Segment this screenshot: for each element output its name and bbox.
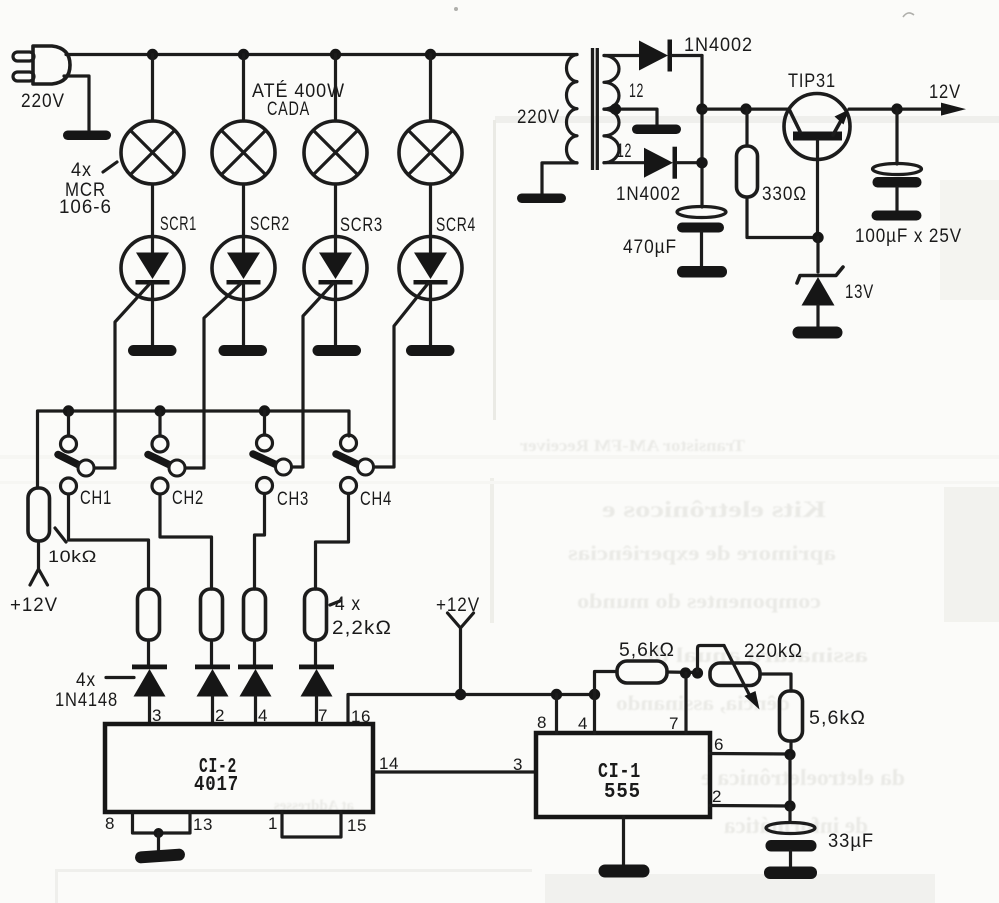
svg-text:8: 8 bbox=[105, 814, 115, 833]
node pin6 junction bbox=[784, 749, 795, 760]
svg-text:7: 7 bbox=[669, 714, 679, 733]
svg-text:2: 2 bbox=[215, 706, 225, 725]
wire CH2 to R2 bbox=[160, 494, 212, 589]
node rectifier junction bbox=[696, 103, 707, 114]
SCR4 bbox=[372, 184, 462, 467]
wire pin 2 bbox=[710, 804, 790, 808]
node pot left bbox=[680, 667, 691, 678]
wire to ground (4017) bbox=[157, 833, 160, 851]
leader 2,2k bbox=[330, 601, 340, 605]
wire pins 1-15 bbox=[282, 812, 341, 837]
resistor 5,6kΩ (vertical) bbox=[780, 691, 803, 754]
wire pin 6 bbox=[710, 752, 790, 756]
ground (4017) bbox=[135, 848, 186, 863]
switch CH2 bbox=[148, 411, 185, 494]
arrow 12V out bbox=[941, 103, 966, 116]
wire to pin 7 bbox=[684, 673, 687, 733]
ground (470µF) bbox=[677, 266, 727, 278]
diode D5 1N4148 bbox=[238, 665, 273, 725]
svg-text:220V: 220V bbox=[517, 107, 560, 128]
svg-text:555: 555 bbox=[604, 781, 641, 804]
capacitor 470µF bbox=[677, 207, 726, 267]
node lamp4 bbox=[425, 49, 436, 60]
svg-text:106-6: 106-6 bbox=[59, 197, 112, 218]
node 330 ohm tap bbox=[740, 103, 751, 114]
svg-text:16: 16 bbox=[351, 707, 371, 726]
lamp 1 bbox=[121, 55, 184, 185]
wire secondary bottom to diode bbox=[604, 161, 644, 164]
svg-text:Kits eletrônicos e: Kits eletrônicos e bbox=[602, 497, 826, 522]
svg-text:dência, assinando: dência, assinando bbox=[616, 691, 790, 715]
wire 555 pin1 to ground bbox=[622, 817, 625, 865]
svg-text:+12V: +12V bbox=[10, 595, 58, 616]
IC U2 CI-2 4017 bbox=[105, 724, 373, 812]
node lamp2 bbox=[238, 49, 249, 60]
svg-text:componentes do mundo: componentes do mundo bbox=[577, 589, 821, 613]
svg-text:13V: 13V bbox=[845, 282, 874, 303]
svg-text:220V: 220V bbox=[21, 91, 65, 112]
diode D1 1N4002 bbox=[639, 40, 702, 72]
label 4x 1N4148 bbox=[55, 670, 118, 711]
wire center tap bbox=[604, 109, 657, 125]
svg-text:3: 3 bbox=[152, 706, 162, 725]
label 4x MCR 106-6 bbox=[59, 160, 112, 218]
node pin4 tap bbox=[589, 689, 600, 700]
svg-text:1: 1 bbox=[268, 814, 278, 833]
svg-text:SCR4: SCR4 bbox=[436, 215, 476, 236]
lamp 2 bbox=[212, 55, 275, 185]
SCR3 bbox=[291, 184, 367, 467]
switch CH4 bbox=[336, 435, 374, 494]
transistor Q1 TIP31 bbox=[784, 94, 850, 238]
resistor R1 2,2kΩ bbox=[138, 589, 160, 665]
ground (555) bbox=[599, 865, 650, 878]
leader 1N4148 bbox=[106, 676, 134, 679]
wire pin 8 bbox=[555, 695, 558, 734]
svg-text:5,6kΩ: 5,6kΩ bbox=[619, 640, 675, 661]
svg-text:4x: 4x bbox=[76, 670, 96, 691]
SCR2 bbox=[184, 184, 275, 468]
svg-text:Transistor AM-FM Receiver: Transistor AM-FM Receiver bbox=[520, 436, 745, 455]
svg-text:14: 14 bbox=[379, 754, 399, 773]
label ATÉ 400W CADA bbox=[252, 81, 345, 120]
leader 10k bbox=[55, 528, 66, 542]
switch CH3 bbox=[253, 411, 292, 494]
capacitor 33µF bbox=[766, 806, 817, 867]
wire top AC rail bbox=[66, 53, 577, 56]
resistor R3 2,2kΩ bbox=[244, 589, 266, 665]
AC plug 220V bbox=[13, 46, 70, 84]
svg-text:4 x: 4 x bbox=[335, 594, 361, 615]
svg-text:470µF: 470µF bbox=[623, 237, 677, 258]
svg-text:TIP31: TIP31 bbox=[788, 71, 836, 92]
svg-text:1N4148: 1N4148 bbox=[55, 690, 118, 711]
label 4 x 2,2kΩ bbox=[332, 594, 392, 639]
node wiper tie bbox=[692, 667, 703, 678]
node pin2 junction bbox=[784, 800, 795, 811]
wire rectifier output vertical bbox=[700, 56, 703, 208]
svg-text:CH1: CH1 bbox=[80, 488, 112, 509]
svg-text:2,2kΩ: 2,2kΩ bbox=[332, 618, 392, 639]
svg-text:CH3: CH3 bbox=[277, 489, 309, 510]
wire rail to transistor bbox=[702, 107, 789, 110]
resistor 5,6kΩ (horizontal) bbox=[617, 661, 698, 683]
ground (100µF) bbox=[872, 211, 922, 221]
svg-text:15: 15 bbox=[347, 816, 367, 835]
svg-text:4: 4 bbox=[578, 714, 588, 733]
ground (primary) bbox=[517, 194, 566, 204]
ground (plug) bbox=[63, 131, 111, 141]
lamp 4 bbox=[399, 55, 462, 185]
node +12V antenna bbox=[455, 689, 466, 700]
wire secondary top to diode bbox=[604, 54, 639, 57]
supply fork +12V bbox=[448, 613, 474, 694]
node lamp1 bbox=[147, 49, 158, 60]
ground (SCR4) bbox=[406, 345, 455, 356]
svg-text:CH4: CH4 bbox=[360, 489, 392, 510]
svg-text:12V: 12V bbox=[929, 82, 961, 103]
svg-text:SCR3: SCR3 bbox=[340, 215, 383, 236]
node lower diode junction bbox=[696, 157, 707, 168]
svg-text:da eletroeletrônica e: da eletroeletrônica e bbox=[701, 765, 905, 790]
node pin8-13 ground tap bbox=[154, 828, 164, 838]
diode D4 1N4148 bbox=[195, 665, 230, 725]
resistor 330Ω bbox=[737, 109, 819, 237]
svg-text:33µF: 33µF bbox=[828, 831, 874, 852]
svg-text:5,6kΩ: 5,6kΩ bbox=[809, 708, 866, 729]
svg-text:aprimore de experiências: aprimore de experiências bbox=[568, 541, 836, 565]
ground (SCR2) bbox=[219, 345, 268, 356]
wire 12V output rail bbox=[849, 107, 951, 110]
wire pin 4 and 5,6k feed bbox=[595, 672, 618, 734]
svg-text:4x: 4x bbox=[71, 160, 92, 181]
svg-text:3: 3 bbox=[513, 755, 523, 774]
svg-text:12: 12 bbox=[617, 141, 632, 162]
diode D3 1N4148 bbox=[132, 665, 167, 725]
svg-text:SCR1: SCR1 bbox=[160, 214, 197, 235]
node bus CH3 bbox=[259, 405, 270, 416]
transformer core bbox=[593, 48, 598, 170]
node output cap tap bbox=[891, 103, 902, 114]
svg-text:7: 7 bbox=[318, 706, 328, 725]
node pin8 tap bbox=[551, 689, 562, 700]
svg-text:2: 2 bbox=[712, 787, 722, 806]
svg-text:100µF x 25V: 100µF x 25V bbox=[855, 226, 962, 247]
potentiometer 220kΩ bbox=[698, 646, 792, 710]
wire +12V rail to ICs bbox=[348, 695, 595, 725]
svg-text:4: 4 bbox=[258, 706, 268, 725]
resistor R2 2,2kΩ bbox=[201, 589, 223, 665]
node bus CH2 bbox=[154, 405, 165, 416]
ground (zener) bbox=[793, 327, 843, 339]
svg-text:220kΩ: 220kΩ bbox=[744, 641, 803, 662]
IC U1 CI-1 555 bbox=[536, 733, 710, 817]
resistor 10kΩ bbox=[28, 488, 50, 585]
wire primary bottom to ground bbox=[542, 163, 577, 194]
wire CH1 to R1 bbox=[69, 494, 149, 589]
transformer T1 secondary bbox=[604, 56, 619, 163]
zener diode 13V bbox=[797, 238, 843, 328]
wire pins 8-13 bbox=[133, 812, 191, 833]
node center tap bbox=[610, 103, 621, 114]
ground (center tap) bbox=[632, 125, 681, 135]
resistor R4 2,2kΩ bbox=[305, 589, 327, 665]
diode D2 1N4002 bbox=[644, 147, 702, 179]
svg-text:12: 12 bbox=[629, 81, 644, 102]
svg-text:CADA: CADA bbox=[267, 99, 310, 120]
svg-text:1N4002: 1N4002 bbox=[616, 184, 681, 205]
transformer T1 primary bbox=[566, 55, 577, 163]
wire CH4 to R4 bbox=[316, 494, 349, 590]
svg-text:CH2: CH2 bbox=[172, 488, 204, 509]
svg-text:330Ω: 330Ω bbox=[762, 184, 807, 205]
wire plug neutral to ground bbox=[64, 76, 89, 130]
lamp 3 bbox=[304, 55, 367, 185]
svg-text:8: 8 bbox=[537, 713, 547, 732]
node base junction bbox=[812, 232, 823, 243]
svg-text:13: 13 bbox=[193, 815, 213, 834]
leader line to lamp bbox=[103, 162, 117, 172]
ground (SCR1) bbox=[128, 345, 177, 356]
node lamp3 bbox=[330, 49, 341, 60]
wire pin 14 to 555 pin 3 bbox=[373, 770, 536, 773]
node bus CH1 bbox=[63, 405, 74, 416]
capacitor 100µF bbox=[873, 109, 922, 211]
SCR1 bbox=[93, 184, 184, 468]
svg-text:6: 6 bbox=[714, 735, 724, 754]
wire pin6 to pin2 vertical bbox=[788, 755, 791, 807]
svg-text:SCR2: SCR2 bbox=[250, 214, 290, 235]
svg-text:1N4002: 1N4002 bbox=[684, 35, 753, 56]
ground (SCR3) bbox=[313, 345, 362, 356]
ground (33µF) bbox=[764, 867, 817, 880]
diode D6 1N4148 bbox=[299, 665, 334, 725]
wire gate bus bbox=[38, 411, 350, 488]
wire CH3 to R3 bbox=[255, 494, 265, 590]
switch CH1 bbox=[58, 411, 94, 494]
svg-text:4017: 4017 bbox=[194, 774, 239, 797]
svg-text:10kΩ: 10kΩ bbox=[48, 547, 97, 566]
